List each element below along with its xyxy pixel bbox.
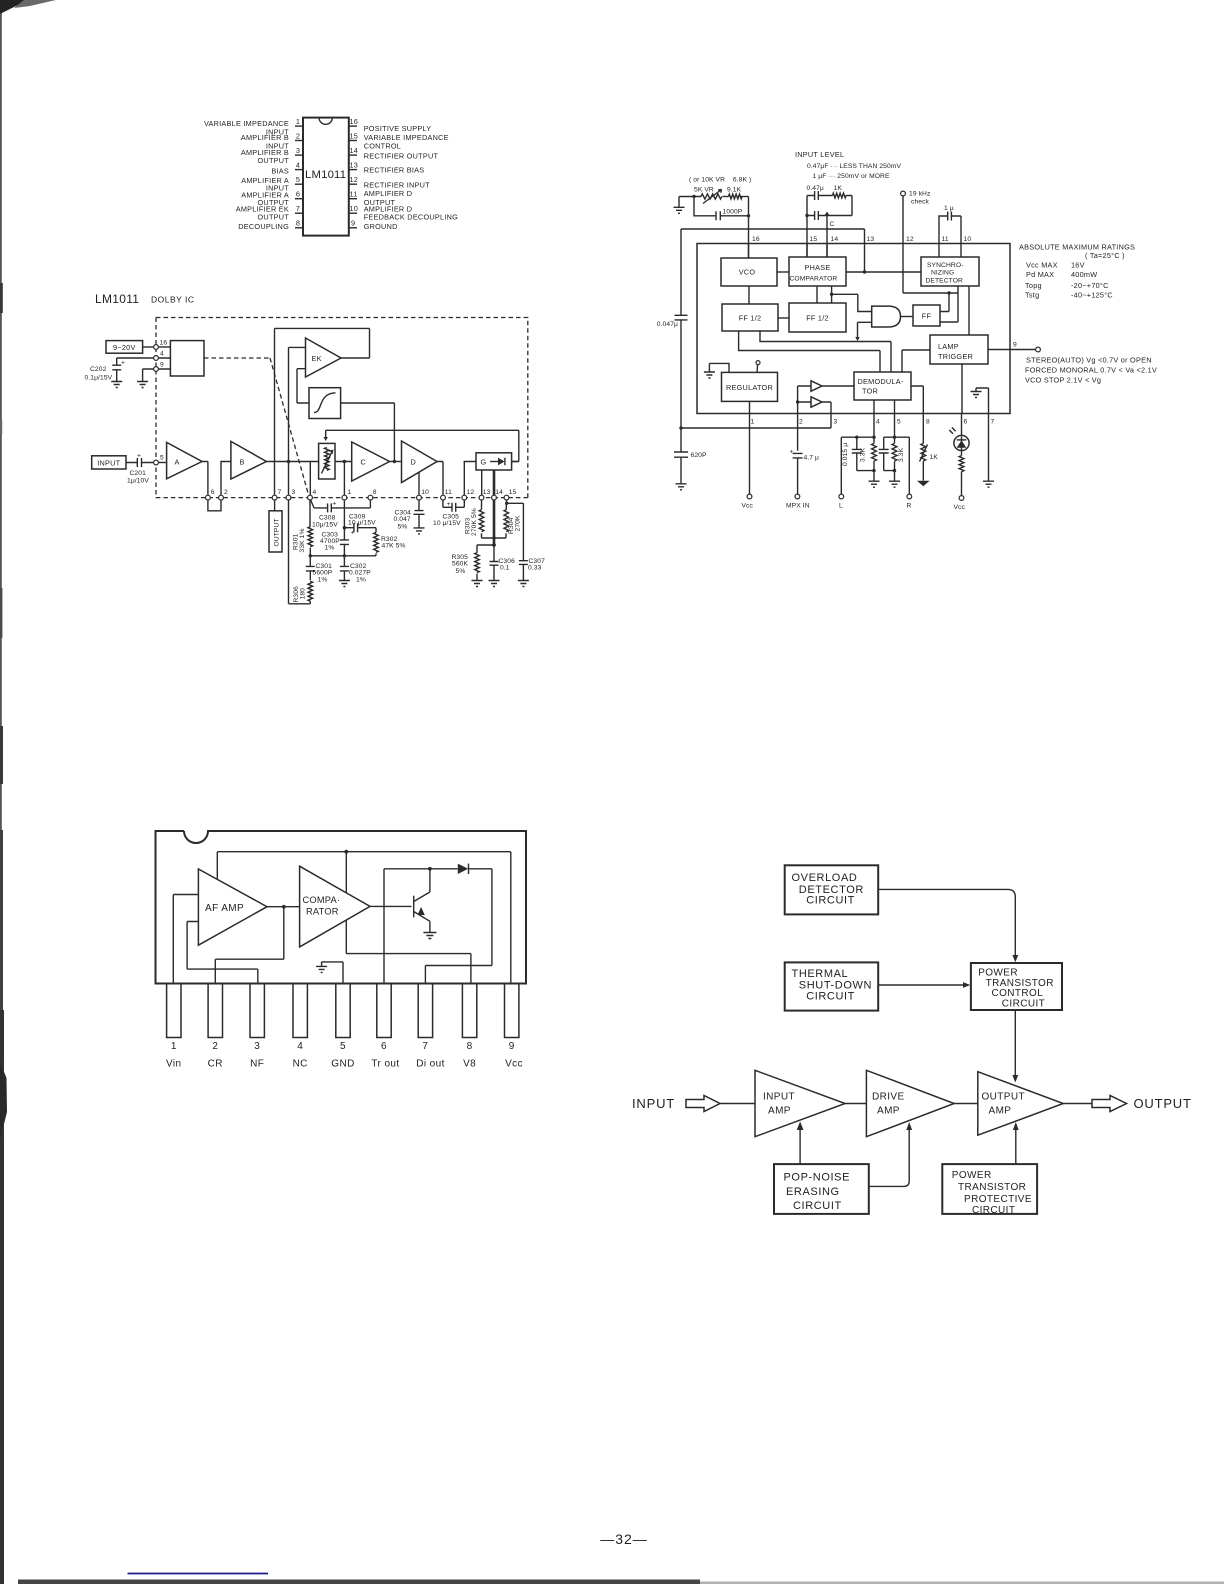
svg-text:AMP: AMP <box>877 1106 900 1117</box>
svg-text:16: 16 <box>752 236 760 243</box>
pin 4 <box>154 356 159 361</box>
svg-text:15: 15 <box>350 131 359 140</box>
svg-text:8: 8 <box>467 1041 473 1052</box>
ground C304 <box>414 528 425 534</box>
svg-text:1 μ: 1 μ <box>944 205 954 212</box>
svg-text:AMP: AMP <box>768 1106 791 1117</box>
ground pin8 <box>917 481 930 487</box>
ground R305 <box>472 581 483 587</box>
wire comparator out <box>370 905 412 907</box>
svg-text:DRIVE: DRIVE <box>872 1092 905 1103</box>
wire pin12 to G <box>464 462 476 496</box>
node 1000P junction <box>692 195 695 198</box>
wire comparator branch <box>832 286 872 312</box>
svg-text:TRANSISTOR: TRANSISTOR <box>958 1182 1026 1193</box>
pin 16 <box>349 125 357 127</box>
pin 15 <box>349 140 357 142</box>
box INPUT <box>92 456 126 469</box>
svg-text:CR: CR <box>208 1059 223 1070</box>
svg-text:180: 180 <box>299 588 306 600</box>
svg-text:FEEDBACK DECOUPLING: FEEDBACK DECOUPLING <box>364 212 458 221</box>
svg-text:V8: V8 <box>463 1059 476 1070</box>
svg-text:8: 8 <box>373 489 377 496</box>
svg-text:9: 9 <box>1013 342 1017 349</box>
svg-text:6: 6 <box>211 489 215 496</box>
wire output amp to arrow <box>1063 1103 1092 1105</box>
svg-text:12: 12 <box>467 489 475 496</box>
pin 7 Diout <box>418 984 432 1038</box>
buffer amp lower <box>811 397 822 407</box>
resistor LED series <box>961 451 963 456</box>
svg-text:GROUND: GROUND <box>364 222 398 231</box>
svg-text:RECTIFIER BIAS: RECTIFIER BIAS <box>364 166 425 175</box>
wire pin1 riser <box>343 462 345 496</box>
arrow output symbol <box>1092 1096 1127 1112</box>
pin 2 <box>295 140 303 142</box>
wire supply to pin16 <box>143 346 154 348</box>
wire buffers to demodulator <box>822 386 854 414</box>
wire D out to pin11 <box>437 462 443 496</box>
svg-text:DOLBY IC: DOLBY IC <box>151 295 195 305</box>
pin 9 output <box>988 349 1036 351</box>
wire B out bus <box>266 461 310 463</box>
network pin4 de-emphasis <box>873 414 875 444</box>
pin 10 <box>349 212 357 214</box>
variable resistor 5K VR <box>701 194 722 199</box>
svg-text:0.1μ/15V: 0.1μ/15V <box>85 375 113 382</box>
wire pin14 to comparator <box>826 244 828 258</box>
ground C306 <box>489 581 500 587</box>
pin 1 Vin <box>167 984 181 1038</box>
svg-text:5: 5 <box>897 419 901 426</box>
svg-text:14: 14 <box>831 236 839 243</box>
svg-text:6: 6 <box>381 1041 387 1052</box>
svg-text:POWER: POWER <box>952 1170 992 1181</box>
gate AND <box>872 306 901 327</box>
svg-text:0.047: 0.047 <box>394 516 411 523</box>
svg-text:10: 10 <box>350 204 359 213</box>
svg-text:CIRCUIT: CIRCUIT <box>793 1200 842 1212</box>
svg-text:+: + <box>121 360 125 367</box>
svg-text:INPUT LEVEL: INPUT LEVEL <box>795 150 844 159</box>
svg-text:3.3K: 3.3K <box>859 447 866 462</box>
svg-text:Tr out: Tr out <box>371 1059 399 1070</box>
pin 11 <box>441 495 446 500</box>
svg-text:1: 1 <box>751 419 755 426</box>
svg-text:G: G <box>481 458 487 467</box>
buffer amp upper <box>811 381 822 391</box>
svg-text:4: 4 <box>313 489 317 496</box>
svg-text:4: 4 <box>876 419 880 426</box>
wire pin2 to B <box>221 462 231 496</box>
wire pin7 Diout <box>425 869 492 984</box>
wire <box>723 196 729 198</box>
pin 12 <box>462 495 467 500</box>
wire pin10 to D <box>418 472 420 495</box>
wire <box>679 196 701 198</box>
svg-text:OUTPUT: OUTPUT <box>258 212 290 221</box>
pin 13 <box>479 495 484 500</box>
wire pin13 internal <box>864 244 866 273</box>
svg-text:1 μF ··· 250mV or MORE: 1 μF ··· 250mV or MORE <box>813 173 890 180</box>
IC U-LM1011 package body <box>303 118 349 236</box>
op-amp C <box>352 442 390 481</box>
wire jumper pins6-2 <box>208 500 221 511</box>
IC dashed outline <box>156 318 528 498</box>
svg-text:5600P: 5600P <box>313 570 333 577</box>
svg-text:DETECTOR: DETECTOR <box>926 278 964 285</box>
wire pin16 to VCO <box>748 244 750 259</box>
svg-text:1%: 1% <box>318 577 328 584</box>
pin 1 <box>295 125 303 127</box>
svg-text:SYNCHRO-: SYNCHRO- <box>927 262 963 269</box>
wire lamp trigger to demodulator <box>902 350 930 372</box>
wire sync detector to lamp trigger <box>968 286 970 335</box>
wire C to D <box>390 461 402 463</box>
svg-text:33K 1%: 33K 1% <box>299 528 306 552</box>
arrow input symbol <box>686 1096 720 1112</box>
svg-text:FF: FF <box>922 312 932 321</box>
svg-text:Vin: Vin <box>166 1059 181 1070</box>
wire pin12 external <box>902 196 904 293</box>
wire pin15 external <box>806 216 808 258</box>
amp INPUT AMP <box>755 1070 845 1136</box>
pin 14 <box>492 495 497 500</box>
svg-text:INPUT: INPUT <box>763 1092 795 1103</box>
block DEMODULATOR <box>854 372 911 400</box>
wire V8 net <box>346 852 471 984</box>
svg-text:+: + <box>137 453 141 460</box>
wire pin5 ground <box>322 962 343 984</box>
svg-text:0.047μ: 0.047μ <box>657 321 678 328</box>
svg-text:8: 8 <box>296 219 300 228</box>
ground internal <box>316 966 327 972</box>
pin 2 CR <box>208 984 222 1038</box>
block FF 1/2 left <box>722 304 778 331</box>
svg-text:0.47μF ··· LESS THAN 250mV: 0.47μF ··· LESS THAN 250mV <box>807 163 901 170</box>
svg-text:10 μ/15V: 10 μ/15V <box>433 520 461 527</box>
svg-text:1: 1 <box>348 489 352 496</box>
wire input amp to drive amp <box>845 1103 866 1105</box>
capacitor C302 <box>340 566 349 571</box>
svg-text:5: 5 <box>160 455 164 462</box>
svg-text:INPUT: INPUT <box>632 1096 675 1111</box>
IC outline (stereo decoder) <box>697 244 1010 414</box>
svg-text:EK: EK <box>312 354 322 363</box>
svg-text:TOR: TOR <box>862 387 878 396</box>
block G rectifier <box>476 453 512 470</box>
svg-text:L: L <box>839 503 843 510</box>
svg-text:Topg: Topg <box>1025 281 1042 290</box>
svg-text:+: + <box>447 501 451 508</box>
pin 3 NF <box>250 984 264 1038</box>
svg-text:13: 13 <box>350 160 359 169</box>
svg-text:7: 7 <box>296 204 300 213</box>
svg-text:1000P: 1000P <box>723 209 743 216</box>
capacitor C201 <box>126 462 154 464</box>
terminal regulator top <box>756 361 760 365</box>
block PHASE COMPARATOR <box>789 257 846 286</box>
block LAMP TRIGGER <box>930 335 988 364</box>
svg-text:RECTIFIER OUTPUT: RECTIFIER OUTPUT <box>364 152 439 161</box>
svg-text:7: 7 <box>422 1041 428 1052</box>
svg-text:1K: 1K <box>834 185 843 192</box>
svg-text:C202: C202 <box>90 366 107 373</box>
svg-text:COMPA·: COMPA· <box>303 895 341 905</box>
svg-text:1: 1 <box>171 1041 177 1052</box>
ground pin7 <box>988 414 990 482</box>
svg-text:5%: 5% <box>456 568 466 575</box>
arrow protective to output amp <box>1015 1130 1017 1165</box>
wire pin1 external chain <box>343 500 345 580</box>
ground emitter <box>423 933 436 939</box>
svg-text:Vcc MAX: Vcc MAX <box>1026 261 1058 270</box>
svg-text:270K 5%: 270K 5% <box>471 508 478 536</box>
svg-text:1%: 1% <box>356 577 366 584</box>
svg-text:NC: NC <box>293 1059 308 1070</box>
svg-text:-20~+70°C: -20~+70°C <box>1071 281 1109 290</box>
wire FF half to demodulator A <box>760 331 891 372</box>
op-amp B <box>231 441 267 479</box>
svg-text:47K 5%: 47K 5% <box>382 543 406 550</box>
svg-text:0.1: 0.1 <box>500 565 510 572</box>
wire EK lower input <box>297 369 309 403</box>
capacitor C306 <box>490 545 499 580</box>
wire pin14 external <box>826 216 828 258</box>
wire pin11 to sync <box>938 244 940 258</box>
svg-text:-40~+125°C: -40~+125°C <box>1071 291 1113 300</box>
svg-text:Tstg: Tstg <box>1025 291 1039 300</box>
svg-text:2: 2 <box>224 489 228 496</box>
svg-text:C: C <box>830 221 835 228</box>
svg-text:CONTROL: CONTROL <box>364 141 401 150</box>
svg-text:MPX IN: MPX IN <box>786 503 810 510</box>
box OUTPUT <box>274 500 276 511</box>
block FF 1/2 right <box>789 303 846 332</box>
comparator <box>300 866 370 947</box>
svg-text:C: C <box>361 458 367 467</box>
terminal 19kHz check <box>901 191 906 196</box>
svg-text:14: 14 <box>350 146 359 155</box>
pin 6 <box>206 495 211 500</box>
svg-text:AF AMP: AF AMP <box>205 903 244 914</box>
capacitor C301 <box>306 556 315 571</box>
svg-text:16: 16 <box>160 340 168 347</box>
block OVERLOAD DETECTOR CIRCUIT <box>785 865 879 914</box>
svg-text:( Ta=25°C ): ( Ta=25°C ) <box>1085 251 1125 260</box>
svg-text:AMP: AMP <box>989 1106 1012 1117</box>
svg-text:LM1011: LM1011 <box>305 169 346 181</box>
svg-text:LAMP: LAMP <box>938 342 959 351</box>
capacitor C308 <box>311 500 328 508</box>
svg-text:D: D <box>411 458 417 467</box>
node pin3 filter <box>679 426 682 429</box>
svg-text:0.027P: 0.027P <box>349 570 371 577</box>
block FF <box>913 305 940 326</box>
capacitor C305 <box>443 500 452 507</box>
wire G out <box>512 461 519 463</box>
svg-text:CIRCUIT: CIRCUIT <box>806 991 855 1003</box>
svg-text:VCO STOP 2.1V < Vg: VCO STOP 2.1V < Vg <box>1025 376 1101 385</box>
svg-text:NIZING: NIZING <box>931 270 954 277</box>
svg-text:C308: C308 <box>319 515 336 522</box>
blue underline mark <box>128 1573 269 1575</box>
wire pin14 heavy external <box>493 500 496 545</box>
svg-text:5: 5 <box>296 175 300 184</box>
svg-text:5K VR: 5K VR <box>694 187 714 194</box>
svg-text:15: 15 <box>810 236 818 243</box>
pin 5 <box>295 183 303 185</box>
wire AND to FF <box>901 316 914 318</box>
variable impedance element <box>319 443 335 479</box>
svg-text:13: 13 <box>867 236 875 243</box>
wire EK feedback loop to pin7 <box>275 328 370 495</box>
wire pin10 to sync <box>960 244 962 258</box>
pin 9 <box>349 227 357 229</box>
svg-text:1μ/10V: 1μ/10V <box>127 478 149 485</box>
svg-text:12: 12 <box>906 236 914 243</box>
pin 9 Vcc <box>505 984 519 1038</box>
svg-text:270K: 270K <box>514 515 521 531</box>
pin 10 <box>417 495 422 500</box>
svg-text:0.33: 0.33 <box>528 565 542 572</box>
svg-text:0.015 μ: 0.015 μ <box>842 443 849 466</box>
pin 14 <box>349 154 357 156</box>
block THERMAL SHUT-DOWN CIRCUIT <box>785 962 879 1010</box>
arrow thermal to control <box>878 984 963 986</box>
diode D1 <box>458 864 468 874</box>
wire VR to C <box>335 461 352 463</box>
wire G to pin14 heavy <box>493 470 496 495</box>
network pin5 de-emphasis <box>894 414 896 444</box>
resistor 9.1K <box>729 194 743 199</box>
terminal MPX IN <box>795 494 800 499</box>
block REGULATOR <box>722 372 778 401</box>
block POP-NOISE ERASING CIRCUIT <box>774 1164 869 1214</box>
svg-text:11: 11 <box>350 190 358 199</box>
wire G to pin13 <box>481 470 483 495</box>
pin 7 <box>295 212 303 214</box>
svg-text:10: 10 <box>964 236 972 243</box>
capacitor C309 <box>344 527 354 529</box>
svg-text:POP-NOISE: POP-NOISE <box>784 1172 851 1184</box>
wire pin15 to comparator <box>806 244 808 258</box>
wire AF out <box>267 906 300 908</box>
pin 2 <box>219 495 224 500</box>
wire pin2 CR net <box>215 907 283 984</box>
filter rail <box>310 555 376 557</box>
svg-text:6: 6 <box>296 190 300 199</box>
capacitor C303 <box>340 540 349 545</box>
svg-text:5%: 5% <box>398 524 408 531</box>
svg-text:check: check <box>911 199 930 206</box>
svg-text:2: 2 <box>799 419 803 426</box>
svg-text:0.47μ: 0.47μ <box>807 185 824 192</box>
pin 8 <box>369 500 371 508</box>
svg-text:SHUT-DOWN: SHUT-DOWN <box>799 979 872 991</box>
wire FF-FF link <box>778 317 789 319</box>
pin 8 V8 <box>462 984 476 1038</box>
svg-text:12: 12 <box>350 175 359 184</box>
svg-text:—32—: —32— <box>600 1531 648 1547</box>
svg-text:16V: 16V <box>1071 261 1085 270</box>
wire pin3 external <box>681 414 831 429</box>
svg-text:400mW: 400mW <box>1071 270 1097 279</box>
svg-text:7: 7 <box>278 489 282 496</box>
svg-text:5: 5 <box>340 1041 346 1052</box>
wire VR in <box>310 462 318 496</box>
wire AND lower input <box>858 322 872 337</box>
wire comparator to sync detector <box>846 271 921 273</box>
op-amp A <box>167 442 202 478</box>
resistor R305 <box>477 545 494 553</box>
box 9~20V supply <box>106 341 143 354</box>
svg-text:2: 2 <box>296 131 300 140</box>
svg-text:1: 1 <box>296 117 300 126</box>
svg-text:REGULATOR: REGULATOR <box>726 383 773 392</box>
svg-text:LM1011: LM1011 <box>95 292 139 306</box>
op-amp AF AMP <box>198 869 267 945</box>
wire to input amp <box>720 1103 755 1105</box>
svg-text:FF 1/2: FF 1/2 <box>806 314 829 323</box>
svg-text:19 kHz: 19 kHz <box>909 191 931 198</box>
svg-text:BIAS: BIAS <box>271 167 289 176</box>
terminal Vcc pin6 <box>959 496 964 501</box>
ground pin5 <box>889 481 900 487</box>
op-amp D <box>402 441 438 483</box>
svg-text:9~20V: 9~20V <box>113 343 136 352</box>
svg-text:FORCED MONORAL 0.7V < Va <2.1V: FORCED MONORAL 0.7V < Va <2.1V <box>1025 366 1157 375</box>
wire demodulator pins4-5 <box>874 400 895 414</box>
svg-text:PHASE: PHASE <box>805 263 831 272</box>
svg-text:13: 13 <box>483 489 491 496</box>
svg-text:Di out: Di out <box>416 1059 445 1070</box>
block bias supply internal <box>170 341 204 376</box>
svg-text:8: 8 <box>926 419 930 426</box>
svg-text:620P: 620P <box>691 452 707 459</box>
svg-text:6: 6 <box>964 419 968 426</box>
wire pin3 external <box>289 500 311 604</box>
svg-text:2: 2 <box>212 1041 218 1052</box>
block SYNCHRONIZING DETECTOR <box>921 257 979 286</box>
wire VCO to FF <box>748 286 750 304</box>
svg-text:10 μ/15V: 10 μ/15V <box>348 520 376 527</box>
svg-text:3: 3 <box>292 489 296 496</box>
ground C302 <box>339 581 350 587</box>
amp DRIVE AMP <box>866 1070 954 1136</box>
ground regulator <box>709 363 729 372</box>
wire A out to pin6 <box>202 462 208 496</box>
svg-text:GND: GND <box>331 1059 354 1070</box>
wire MPX input rail <box>798 386 811 451</box>
svg-text:9: 9 <box>509 1041 515 1052</box>
svg-text:OUTPUT: OUTPUT <box>258 156 290 165</box>
svg-text:OUTPUT: OUTPUT <box>982 1092 1026 1103</box>
svg-text:10: 10 <box>421 489 429 496</box>
svg-text:AMPLIFIER D: AMPLIFIER D <box>364 189 413 198</box>
pin 3 <box>286 495 291 500</box>
wire pin3 feedback <box>187 922 258 984</box>
svg-text:3: 3 <box>254 1041 260 1052</box>
resistor R303 <box>481 500 483 510</box>
wire <box>741 196 749 198</box>
svg-text:INPUT: INPUT <box>97 458 120 467</box>
svg-text:Vcc: Vcc <box>742 503 754 510</box>
svg-text:ERASING: ERASING <box>786 1186 840 1198</box>
svg-text:OUTPUT: OUTPUT <box>273 518 280 546</box>
LED stereo lamp <box>961 414 963 436</box>
svg-text:4: 4 <box>297 1041 303 1052</box>
